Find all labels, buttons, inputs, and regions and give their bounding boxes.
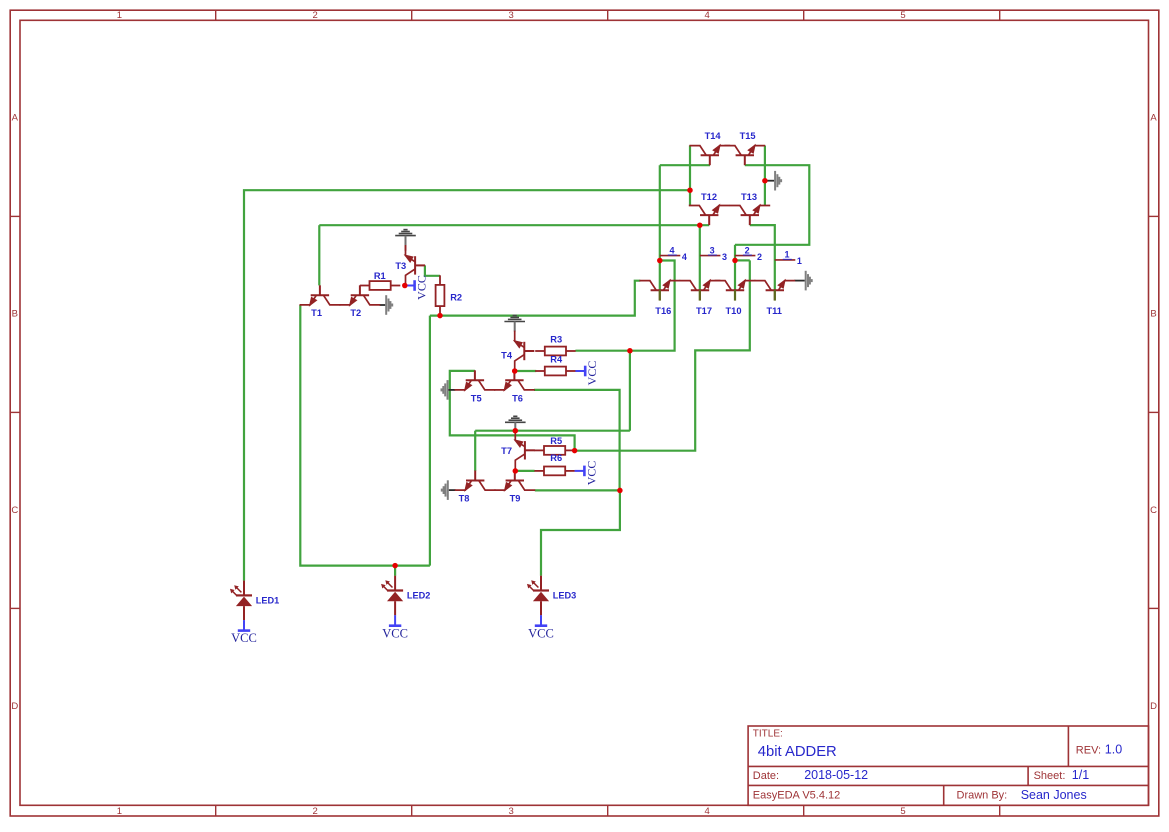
svg-text:EasyEDA V5.4.12: EasyEDA V5.4.12 [753,790,840,802]
resistor R3 [535,347,575,356]
power flag VCC [535,615,547,626]
svg-text:VCC: VCC [415,275,429,300]
wire [300,305,430,566]
junction [687,187,693,193]
transistor T14 [689,146,730,166]
junction [513,468,519,474]
svg-text:B: B [1150,309,1156,320]
net port 3 [700,255,721,257]
svg-text:T16: T16 [655,306,671,316]
wire [735,165,809,245]
svg-text:VCC: VCC [528,626,554,640]
wire [318,225,320,285]
svg-text:2: 2 [313,806,318,817]
frame tick [607,805,609,816]
wire [575,261,674,351]
svg-text:T14: T14 [705,131,722,141]
svg-text:C: C [11,505,18,516]
svg-text:C: C [1150,505,1157,516]
power flag VCC [405,280,415,291]
transistor T8 [455,471,496,491]
resistor R5 [534,446,574,455]
frame tick [607,10,609,20]
svg-text:Drawn By:: Drawn By: [957,790,1008,802]
wire [394,566,396,576]
svg-text:1: 1 [117,10,122,21]
resistor R6 [534,467,574,476]
transistor T17 [680,281,721,301]
ground [448,389,455,391]
svg-text:T17: T17 [696,306,712,316]
frame tick [999,10,1001,20]
wire [535,490,620,575]
wire over base pin [774,290,776,300]
wire [660,164,710,166]
svg-text:R2: R2 [450,293,462,303]
svg-text:VCC: VCC [382,626,408,640]
frame tick [803,10,805,20]
frame tick [411,10,413,20]
junction [697,222,703,228]
LED LED1 [230,581,252,621]
svg-text:5: 5 [900,10,905,21]
wire over base pin [734,290,736,300]
wire [699,225,701,290]
title block frame [748,726,1148,805]
resistor R1 [360,281,400,290]
svg-text:LED3: LED3 [553,591,577,601]
frame tick [215,10,217,20]
wire [629,351,631,431]
frame tick [803,805,805,816]
wire [515,370,537,372]
wire [430,281,640,316]
transistor T3 [406,245,426,286]
LED LED3 [527,576,549,616]
power flag VCC [389,615,401,626]
svg-text:4: 4 [669,245,674,255]
net port 2 [735,255,756,257]
net port 1 [775,259,796,261]
svg-text:VCC: VCC [584,461,598,486]
ground [380,304,386,306]
junction [572,448,578,454]
junction [437,313,443,319]
wire [429,316,431,566]
svg-text:R1: R1 [374,271,386,281]
svg-text:T7: T7 [501,446,512,456]
ground [765,180,774,182]
svg-text:D: D [1150,701,1157,712]
resistor R4 [535,367,575,376]
svg-text:3: 3 [722,252,727,262]
svg-text:LED1: LED1 [256,595,279,605]
svg-text:2: 2 [757,252,762,262]
power flag VCC [575,466,585,477]
svg-text:T3: T3 [395,261,406,271]
frame tick [1149,607,1159,609]
svg-text:3: 3 [710,245,715,255]
wire [575,260,750,450]
wire [425,265,440,275]
svg-text:LED2: LED2 [407,591,431,601]
svg-text:T12: T12 [701,192,717,202]
wire over base pin [699,290,701,300]
frame tick [1149,411,1159,413]
frame tick [10,411,20,413]
transistor T4 [515,331,535,372]
ground [504,316,525,322]
svg-text:R4: R4 [550,355,563,365]
svg-text:1/1: 1/1 [1072,768,1089,782]
svg-text:2: 2 [313,10,318,21]
svg-text:T5: T5 [471,394,482,404]
net port 4 [660,255,681,257]
transistor T1 [300,285,341,305]
svg-text:T15: T15 [740,131,756,141]
wire [734,245,736,290]
transistor T11 [754,281,795,301]
svg-text:T13: T13 [741,192,757,202]
svg-text:Date:: Date: [753,770,779,782]
wire [750,225,775,290]
transistor T16 [639,281,680,301]
svg-text:T11: T11 [766,306,782,316]
transistor T2 [340,285,381,305]
LED LED2 [381,576,403,616]
ground [395,230,416,236]
svg-text:1: 1 [797,256,802,266]
svg-text:4: 4 [705,10,710,21]
wire [474,431,476,471]
svg-text:T9: T9 [510,494,521,504]
svg-text:4: 4 [705,806,710,817]
svg-text:1.0: 1.0 [1105,742,1122,756]
svg-text:T4: T4 [501,350,513,360]
svg-text:4: 4 [682,252,687,262]
junction [512,368,518,374]
svg-text:1: 1 [784,250,789,260]
svg-text:A: A [12,112,19,123]
svg-text:Sean Jones: Sean Jones [1021,788,1087,802]
svg-text:3: 3 [509,806,514,817]
junction [617,488,623,494]
frame tick [10,215,20,217]
svg-text:2018-05-12: 2018-05-12 [804,768,868,782]
svg-text:T2: T2 [350,308,361,318]
wire [534,390,620,491]
wire [764,146,766,206]
junction [513,428,519,434]
svg-text:1: 1 [117,806,122,817]
wire [244,190,690,581]
svg-text:VCC: VCC [231,631,257,645]
svg-text:R6: R6 [550,453,562,463]
ground [449,489,456,491]
frame tick [999,805,1001,816]
frame tick [1149,215,1159,217]
svg-text:R3: R3 [550,334,562,344]
svg-text:VCC: VCC [585,361,599,386]
svg-text:R5: R5 [550,436,562,446]
svg-text:T1: T1 [311,308,322,318]
ground lead [405,246,407,251]
svg-text:Sheet:: Sheet: [1034,770,1066,782]
transistor T9 [494,471,535,491]
transistor T6 [494,370,535,390]
junction [402,283,408,289]
svg-text:T6: T6 [512,394,523,404]
frame tick [215,805,217,816]
wire [319,224,709,226]
svg-text:TITLE:: TITLE: [753,728,783,739]
wire [475,430,630,432]
wire [659,165,661,290]
transistor T7 [515,430,535,471]
junction [732,258,738,264]
svg-text:5: 5 [900,806,905,817]
frame tick [411,805,413,816]
ground [505,416,526,422]
wire [515,470,534,472]
power flag VCC [575,366,585,377]
transistor T10 [715,281,756,301]
wire over base pin [659,290,661,300]
wire [735,259,750,261]
power flag VCC [238,620,250,631]
svg-text:REV:: REV: [1076,744,1101,756]
junction [762,178,768,184]
wire [450,371,575,451]
frame tick [10,607,20,609]
svg-text:D: D [11,701,18,712]
svg-text:3: 3 [509,10,514,21]
transistor T13 [729,206,770,226]
transistor T5 [455,370,496,390]
resistor R2 [436,275,445,315]
junction [392,563,398,569]
wire [689,146,691,206]
svg-text:4bit ADDER: 4bit ADDER [758,744,837,760]
svg-text:T10: T10 [725,306,741,316]
junction [627,348,633,354]
junction [657,258,663,264]
svg-text:B: B [12,309,18,320]
transistor T12 [689,206,730,226]
svg-text:T8: T8 [459,494,470,504]
svg-text:2: 2 [745,245,750,255]
transistor T15 [724,146,765,166]
svg-text:A: A [1150,112,1157,123]
ground [794,280,804,282]
